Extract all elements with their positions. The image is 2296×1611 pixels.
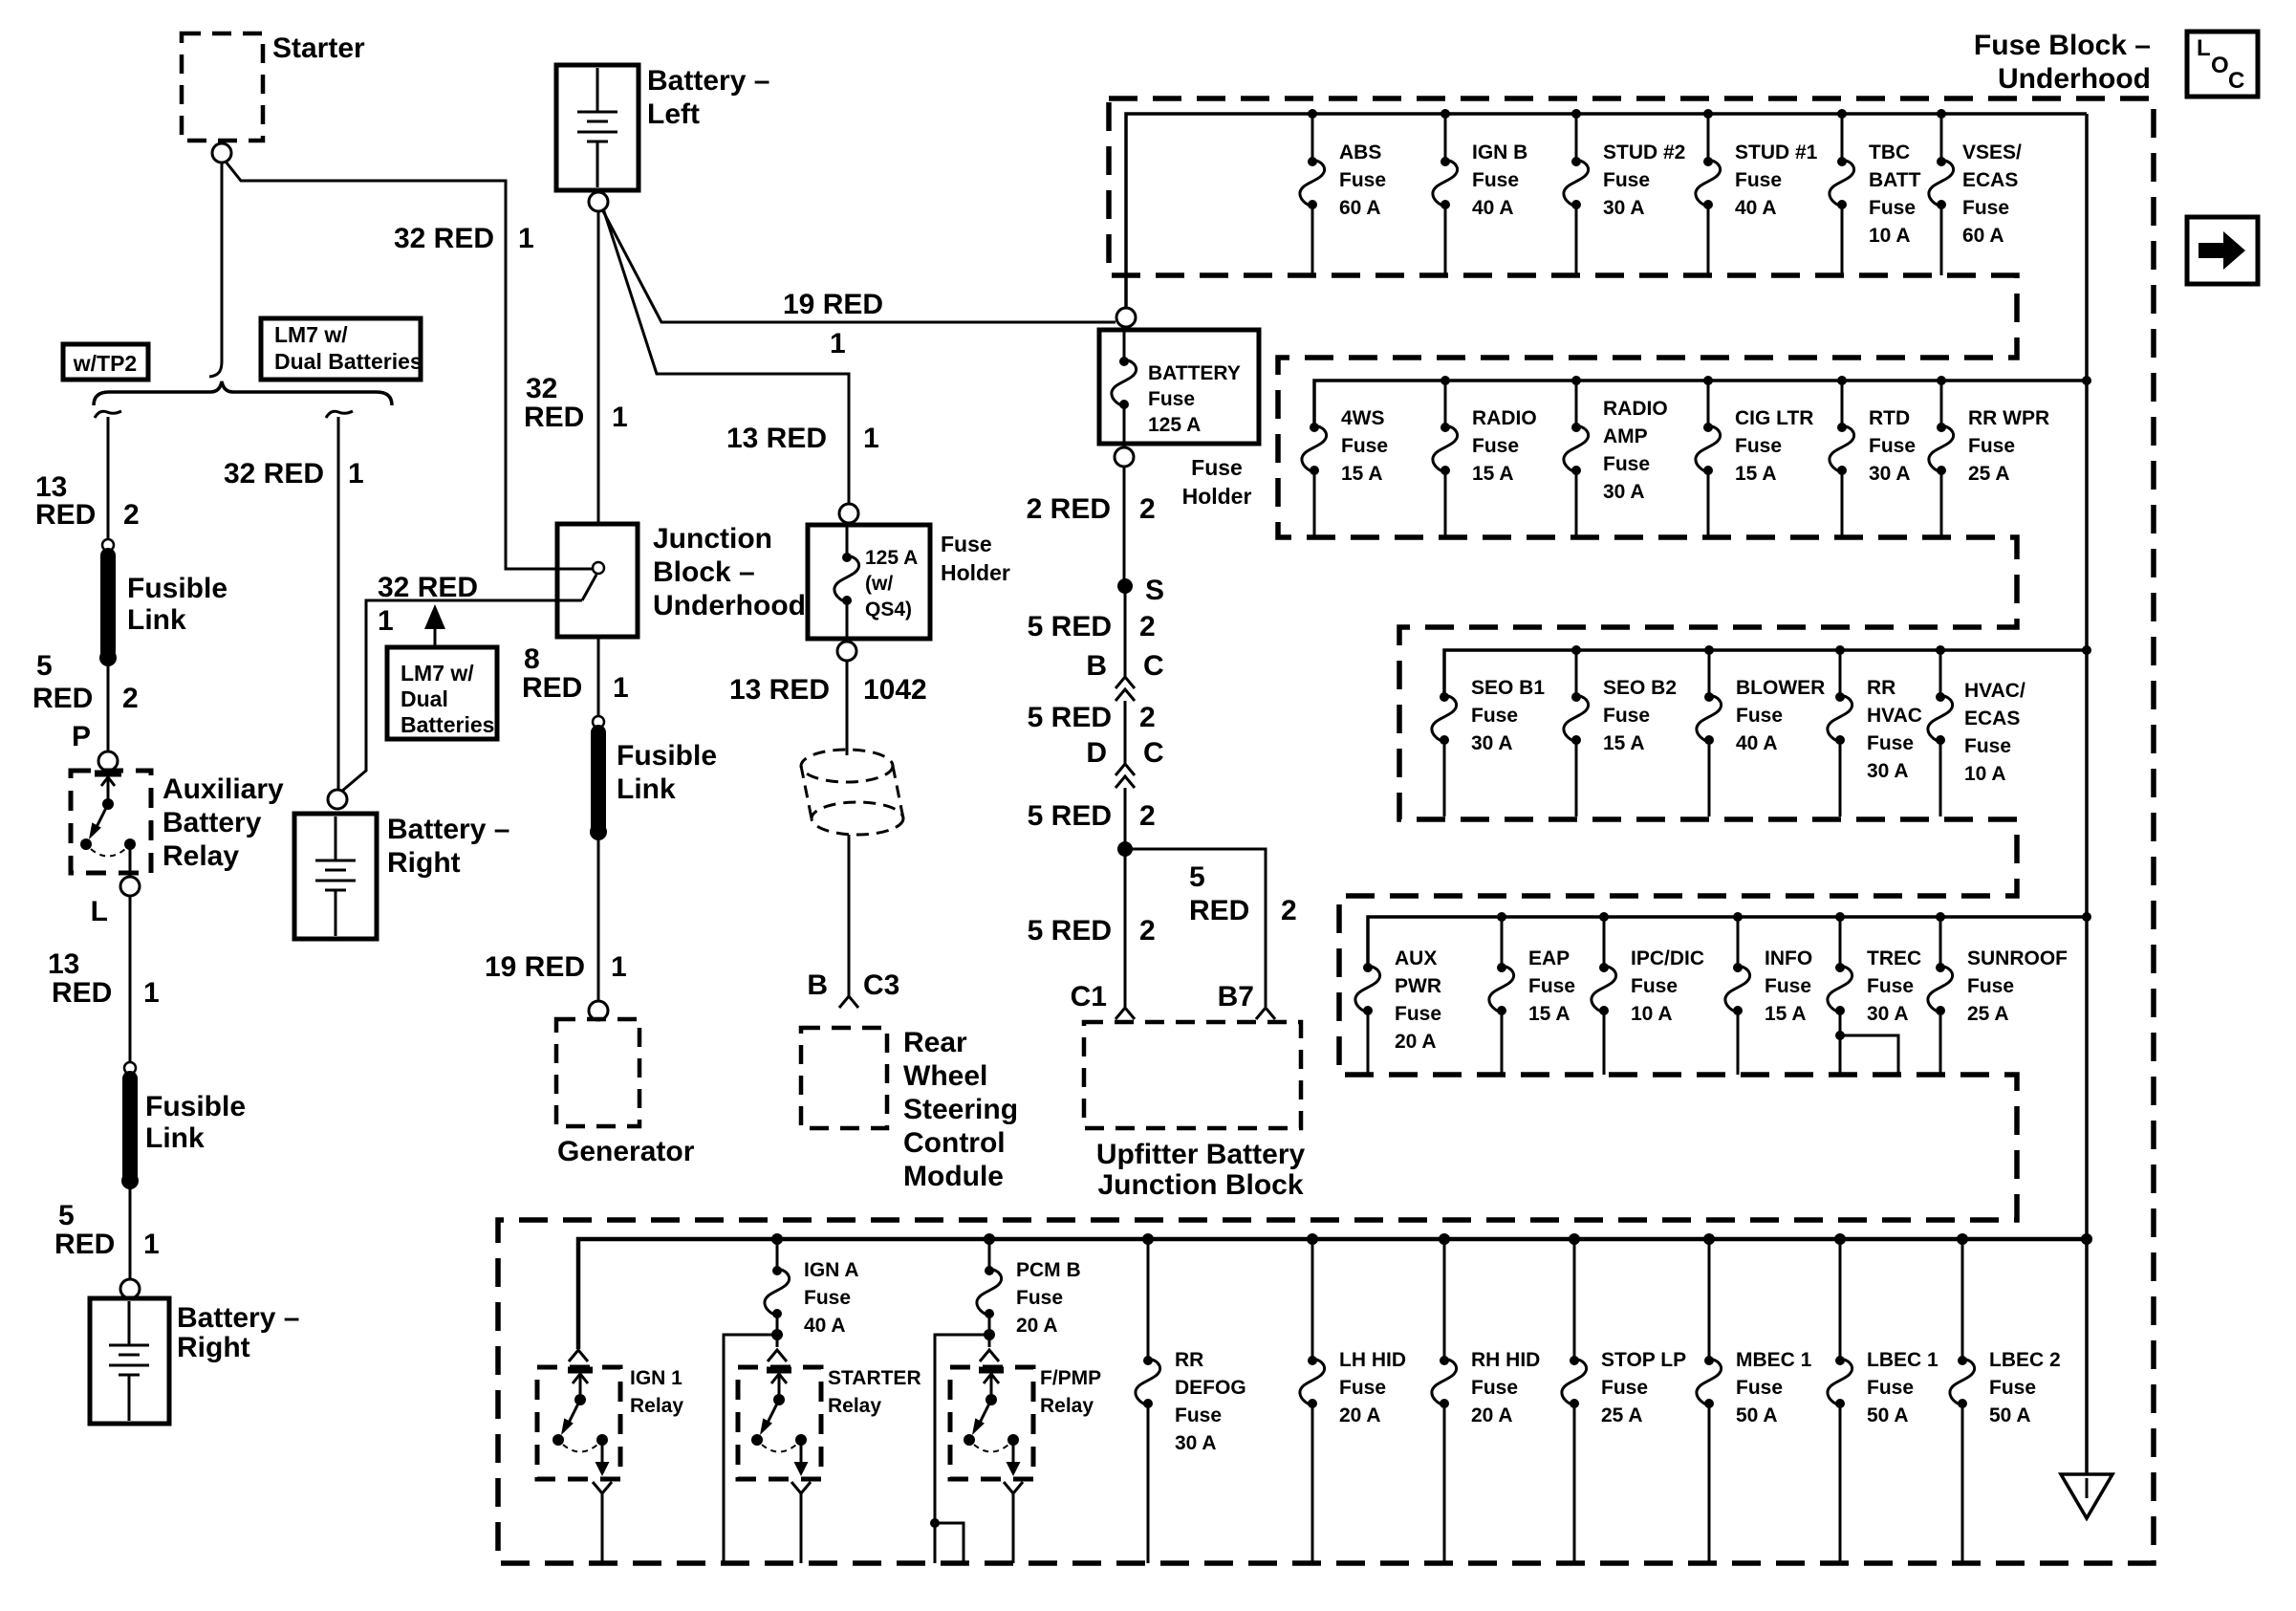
connector ring at battery fuse holder input xyxy=(1116,308,1136,327)
svg-text:HVAC: HVAC xyxy=(1867,705,1922,727)
svg-text:MBEC 1: MBEC 1 xyxy=(1736,1349,1812,1371)
svg-text:Fuse: Fuse xyxy=(1339,169,1386,191)
junction dots row 4 bus xyxy=(1497,912,2091,922)
in-line connector D/C double chevron xyxy=(1086,737,1163,788)
svg-text:1: 1 xyxy=(612,402,628,433)
svg-text:5 RED: 5 RED xyxy=(1028,702,1112,733)
svg-text:Fuse: Fuse xyxy=(1471,705,1518,727)
generator dashed box xyxy=(556,1019,639,1126)
row 2 bus wire xyxy=(1314,381,2087,425)
fuse LH HID 20A with wires xyxy=(1300,1239,1406,1563)
svg-text:1042: 1042 xyxy=(863,674,927,706)
relay IGN 1 xyxy=(537,1367,683,1479)
STARTER relay bypass wire xyxy=(724,1335,777,1563)
aux relay pivot dot xyxy=(102,798,114,810)
connector chevron above F/PMP relay xyxy=(980,1350,999,1361)
variant branch squiggle right xyxy=(326,411,353,418)
connector chevron above IGN 1 relay xyxy=(569,1350,588,1361)
row 3 bus wire xyxy=(1444,650,2087,695)
svg-text:32: 32 xyxy=(526,373,557,404)
svg-text:Fuse: Fuse xyxy=(1867,732,1914,754)
svg-text:Fuse: Fuse xyxy=(1765,975,1811,997)
svg-text:1: 1 xyxy=(143,977,160,1009)
svg-text:IPC/DIC: IPC/DIC xyxy=(1631,947,1704,969)
splice S junction dot xyxy=(1117,578,1133,594)
svg-text:Fuse: Fuse xyxy=(1191,455,1243,480)
variant branch squiggle left xyxy=(95,411,121,418)
svg-text:Fuse: Fuse xyxy=(1471,1377,1518,1399)
LOC reference box xyxy=(2187,32,2258,97)
wire from drum to rws module xyxy=(848,835,851,995)
svg-text:30 A: 30 A xyxy=(1471,732,1513,754)
svg-text:15 A: 15 A xyxy=(1735,463,1777,485)
aux relay contact dots xyxy=(80,838,92,850)
wire starter to variant brace xyxy=(209,163,222,377)
svg-text:125 A: 125 A xyxy=(865,547,918,569)
svg-text:SEO B2: SEO B2 xyxy=(1603,677,1677,699)
shield drum (conduit) dashed cylinder xyxy=(801,750,903,835)
svg-text:25 A: 25 A xyxy=(1968,463,2010,485)
wire 13 RED battery left to rws fuse holder xyxy=(603,208,849,504)
svg-text:15 A: 15 A xyxy=(1603,732,1645,754)
svg-text:Underhood: Underhood xyxy=(653,590,806,621)
svg-text:15 A: 15 A xyxy=(1528,1003,1570,1025)
svg-text:Dual Batteries: Dual Batteries xyxy=(274,349,422,374)
fuse MBEC 1 50A with wires xyxy=(1697,1239,1812,1563)
bottom box bus wire xyxy=(578,1239,2087,1349)
svg-text:20 A: 20 A xyxy=(1339,1404,1381,1426)
fuse RR DEFOG 30A with wires xyxy=(1136,1239,1246,1563)
aux relay moving arm with arrow xyxy=(89,804,108,839)
svg-text:5: 5 xyxy=(1189,861,1205,893)
fuse IGN A 40A xyxy=(765,1239,859,1337)
svg-text:5: 5 xyxy=(36,650,53,682)
TREC output jog wire xyxy=(1835,1031,1898,1075)
svg-text:RED: RED xyxy=(522,672,582,704)
svg-text:INFO: INFO xyxy=(1765,947,1812,969)
connector chevron above STARTER relay xyxy=(768,1350,787,1361)
svg-text:1: 1 xyxy=(830,328,846,359)
svg-text:1: 1 xyxy=(518,223,534,254)
svg-text:Battery –: Battery – xyxy=(177,1302,299,1334)
svg-text:2: 2 xyxy=(1139,800,1156,832)
svg-text:8: 8 xyxy=(524,643,540,675)
battery left cell symbol xyxy=(577,68,617,187)
svg-text:Steering: Steering xyxy=(903,1094,1018,1125)
svg-text:STUD #1: STUD #1 xyxy=(1735,142,1818,163)
svg-text:Fuse: Fuse xyxy=(1736,1377,1783,1399)
wire 5 RED connector D/C to splice xyxy=(1124,788,1127,849)
svg-text:Wheel: Wheel xyxy=(903,1060,987,1092)
battery right (mid) cell symbol xyxy=(315,816,356,936)
svg-text:Fuse: Fuse xyxy=(1175,1404,1222,1426)
connector ring at rws fuse holder input xyxy=(839,504,858,523)
right vertical feed bus wire xyxy=(2085,114,2089,1239)
svg-text:1: 1 xyxy=(378,605,394,637)
svg-text:LBEC 2: LBEC 2 xyxy=(1989,1349,2061,1371)
LM7 w/ dual batteries callout box (left) xyxy=(261,318,422,380)
svg-text:5: 5 xyxy=(58,1200,75,1231)
svg-text:Holder: Holder xyxy=(1182,484,1252,509)
fuse HVAC/ECAS 10A with wires xyxy=(1928,650,2025,816)
wire 19 RED from battery left to fuse holder xyxy=(602,209,1116,322)
svg-text:AUX: AUX xyxy=(1395,947,1437,969)
svg-text:Auxiliary: Auxiliary xyxy=(162,773,284,805)
starter dashed box xyxy=(182,33,263,141)
svg-text:C3: C3 xyxy=(863,969,899,1001)
svg-text:2: 2 xyxy=(1139,493,1156,525)
F/PMP relay output wire xyxy=(1012,1493,1015,1563)
wire 8 RED junction block to fusible link xyxy=(597,637,600,717)
svg-text:Fuse: Fuse xyxy=(1867,975,1914,997)
w/TP2 callout box xyxy=(63,344,148,380)
connector chevron below IGN 1 relay xyxy=(593,1482,612,1493)
aux relay throw dashed arc xyxy=(91,849,125,857)
connector ring at battery right (mid) xyxy=(328,790,347,809)
svg-text:30 A: 30 A xyxy=(1867,760,1909,782)
fuse SEO B1 30A with wires xyxy=(1432,677,1545,816)
svg-text:O: O xyxy=(2211,53,2229,78)
junction block - underhood box xyxy=(557,524,638,637)
svg-text:20 A: 20 A xyxy=(1016,1315,1058,1337)
svg-text:Fuse: Fuse xyxy=(1395,1003,1441,1025)
svg-text:LM7 w/: LM7 w/ xyxy=(401,661,474,686)
fuse LBEC 1 50A with wires xyxy=(1828,1239,1939,1563)
junction dots row 3 bus xyxy=(1571,645,2091,655)
svg-text:Relay: Relay xyxy=(828,1395,881,1417)
svg-text:60 A: 60 A xyxy=(1962,225,2004,247)
relay F/PMP xyxy=(950,1367,1101,1479)
svg-text:20 A: 20 A xyxy=(1471,1404,1513,1426)
svg-text:Relay: Relay xyxy=(1040,1395,1094,1417)
svg-text:Battery: Battery xyxy=(162,807,262,838)
svg-text:1: 1 xyxy=(863,423,879,454)
svg-text:10 A: 10 A xyxy=(1631,1003,1673,1025)
fusible link (left chain upper) xyxy=(99,555,227,666)
svg-text:D: D xyxy=(1086,737,1107,769)
svg-text:2: 2 xyxy=(123,499,140,531)
svg-text:C: C xyxy=(1143,737,1164,769)
wire 13 RED circuit 1042 to rws module xyxy=(846,661,849,755)
fuse LBEC 2 50A with wires xyxy=(1950,1239,2061,1563)
svg-text:1: 1 xyxy=(611,951,627,983)
fuse TREC 30A with wires xyxy=(1828,917,1921,1075)
svg-text:Right: Right xyxy=(387,847,461,879)
svg-text:Fuse: Fuse xyxy=(1603,169,1650,191)
svg-text:Fuse: Fuse xyxy=(1016,1287,1063,1309)
svg-text:F/PMP: F/PMP xyxy=(1040,1367,1101,1389)
svg-text:(w/: (w/ xyxy=(865,573,893,595)
connector ring at battery fuse holder output xyxy=(1115,447,1134,467)
svg-text:Junction Block: Junction Block xyxy=(1097,1169,1303,1201)
fuse RH HID 20A with wires xyxy=(1432,1239,1540,1563)
svg-text:STUD #2: STUD #2 xyxy=(1603,142,1685,163)
connector chevron below F/PMP relay xyxy=(1004,1482,1023,1493)
svg-text:40 A: 40 A xyxy=(1735,197,1777,219)
connector ring at aux relay pin P xyxy=(98,751,118,771)
svg-text:ECAS: ECAS xyxy=(1962,169,2018,191)
svg-text:30 A: 30 A xyxy=(1603,197,1645,219)
svg-text:4WS: 4WS xyxy=(1341,407,1385,429)
svg-text:Fuse: Fuse xyxy=(804,1287,851,1309)
svg-text:25 A: 25 A xyxy=(1601,1404,1643,1426)
fuse RTD 30A with wires xyxy=(1830,381,1916,537)
fuse BATTERY 125A xyxy=(1112,327,1241,447)
svg-text:Fuse Block –: Fuse Block – xyxy=(1974,30,2151,61)
svg-text:B: B xyxy=(807,969,828,1001)
svg-text:RR: RR xyxy=(1867,677,1895,699)
svg-text:DEFOG: DEFOG xyxy=(1175,1377,1246,1399)
wire 5 RED connector B/C to connector D/C xyxy=(1124,701,1127,764)
svg-text:Fuse: Fuse xyxy=(1869,197,1916,219)
svg-text:Fuse: Fuse xyxy=(1341,435,1388,457)
svg-text:Rear: Rear xyxy=(903,1027,967,1058)
fusible link ring (left chain lower) xyxy=(124,1062,136,1074)
svg-text:EAP: EAP xyxy=(1528,947,1570,969)
IGN 1 relay output wire xyxy=(601,1493,604,1563)
svg-text:Underhood: Underhood xyxy=(1998,63,2151,95)
svg-text:Fuse: Fuse xyxy=(1601,1377,1648,1399)
svg-text:Fusible: Fusible xyxy=(127,573,227,604)
fuse EAP 15A with wires xyxy=(1489,917,1575,1075)
svg-text:ECAS: ECAS xyxy=(1964,708,2020,729)
svg-text:Batteries: Batteries xyxy=(401,712,494,737)
battery left box xyxy=(556,65,639,190)
PCM B fuse output wire and junction xyxy=(984,1314,995,1347)
wire 2 RED from fuse holder to splice S xyxy=(1123,467,1126,586)
svg-text:Right: Right xyxy=(177,1332,250,1363)
svg-text:20 A: 20 A xyxy=(1395,1031,1437,1053)
svg-text:TBC: TBC xyxy=(1869,142,1910,163)
svg-text:Generator: Generator xyxy=(557,1136,695,1167)
svg-text:40 A: 40 A xyxy=(804,1315,846,1337)
fusible link (generator feed) xyxy=(590,732,717,840)
svg-text:30 A: 30 A xyxy=(1603,481,1645,503)
svg-text:Fuse: Fuse xyxy=(941,532,992,556)
battery right (lower) box xyxy=(90,1298,169,1424)
fuse holder (125 A w/QS4) box xyxy=(808,525,930,639)
svg-text:Junction: Junction xyxy=(653,523,772,555)
svg-text:Fuse: Fuse xyxy=(1967,975,2014,997)
svg-text:30 A: 30 A xyxy=(1867,1003,1909,1025)
svg-text:RED: RED xyxy=(32,683,93,714)
svg-text:RADIO: RADIO xyxy=(1472,407,1537,429)
svg-text:32 RED: 32 RED xyxy=(224,458,324,490)
fuse STUD #1 40A with wires xyxy=(1696,114,1818,275)
auxiliary battery relay dashed box xyxy=(71,771,151,873)
svg-text:Battery –: Battery – xyxy=(387,814,509,845)
svg-text:RR: RR xyxy=(1175,1349,1203,1371)
svg-text:Fuse: Fuse xyxy=(1603,453,1650,475)
svg-text:Fuse: Fuse xyxy=(1968,435,2015,457)
svg-text:Fuse: Fuse xyxy=(1472,435,1519,457)
svg-text:BATTERY: BATTERY xyxy=(1148,362,1241,384)
junction dots row 2 bus xyxy=(1440,376,2091,385)
svg-text:5 RED: 5 RED xyxy=(1028,800,1112,832)
svg-text:C: C xyxy=(1143,650,1164,682)
svg-text:13 RED: 13 RED xyxy=(726,423,827,454)
svg-text:Fuse: Fuse xyxy=(1989,1377,2036,1399)
connector ring at rws fuse holder output xyxy=(837,642,856,661)
wire 5 RED splice S to connector B/C xyxy=(1124,586,1127,677)
fusible link (left chain lower) xyxy=(121,1078,246,1189)
fuse IPC/DIC 10A with wires xyxy=(1592,917,1704,1075)
fuse BLOWER 40A with wires xyxy=(1697,650,1825,816)
svg-text:Fuse: Fuse xyxy=(1631,975,1678,997)
svg-text:Dual: Dual xyxy=(401,686,448,711)
svg-text:RED: RED xyxy=(1189,895,1249,926)
svg-text:5 RED: 5 RED xyxy=(1028,915,1112,947)
fuse STUD #2 30A with wires xyxy=(1564,114,1685,275)
svg-text:Control: Control xyxy=(903,1127,1006,1159)
junction block internal tap stinger xyxy=(582,575,596,600)
svg-text:Fusible: Fusible xyxy=(145,1091,246,1122)
ground reference triangle G xyxy=(2061,1239,2112,1518)
svg-text:STOP LP: STOP LP xyxy=(1601,1349,1686,1371)
fuse block - underhood dashed outline xyxy=(498,98,2154,1563)
svg-text:B7: B7 xyxy=(1218,981,1254,1012)
upfitter battery junction block dashed box xyxy=(1084,1022,1301,1128)
svg-text:Fuse: Fuse xyxy=(1528,975,1575,997)
svg-text:Block –: Block – xyxy=(653,556,755,588)
variant selection brace xyxy=(94,381,392,405)
fusible link ring (left chain upper) xyxy=(102,539,114,551)
fuse 125 A (w/ QS4) xyxy=(834,523,918,642)
svg-text:Fuse: Fuse xyxy=(1339,1377,1386,1399)
connector ring at battery right (lower) xyxy=(120,1279,140,1298)
svg-text:125 A: 125 A xyxy=(1148,414,1201,436)
svg-text:19 RED: 19 RED xyxy=(485,951,585,983)
svg-text:RTD: RTD xyxy=(1869,407,1910,429)
svg-text:QS4): QS4) xyxy=(865,599,912,620)
connector ring at generator xyxy=(589,1001,608,1020)
svg-text:LBEC 1: LBEC 1 xyxy=(1867,1349,1939,1371)
rear wheel steering control module dashed box xyxy=(801,1028,887,1128)
svg-text:5 RED: 5 RED xyxy=(1028,611,1112,642)
junction dots bottom bus xyxy=(771,1233,2092,1245)
svg-text:Fuse: Fuse xyxy=(1962,197,2009,219)
svg-text:32 RED: 32 RED xyxy=(378,572,478,603)
battery right (lower) cell symbol xyxy=(109,1301,149,1421)
svg-text:2: 2 xyxy=(122,683,139,714)
svg-text:2: 2 xyxy=(1139,611,1156,642)
LM7 callout arrow xyxy=(424,604,445,647)
svg-text:L: L xyxy=(2197,35,2211,61)
svg-text:S: S xyxy=(1145,575,1164,606)
svg-text:Relay: Relay xyxy=(162,840,239,872)
fuse RR HVAC 30A with wires xyxy=(1828,650,1922,816)
svg-text:RADIO: RADIO xyxy=(1603,398,1668,420)
fuse AUX PWR 20A with wires xyxy=(1355,947,1441,1075)
svg-text:Fuse: Fuse xyxy=(1735,435,1782,457)
svg-text:Link: Link xyxy=(127,604,186,636)
fuse SEO B2 15A with wires xyxy=(1564,650,1677,816)
aux relay armature arrow up xyxy=(101,777,115,802)
fuse INFO 15A with wires xyxy=(1725,917,1812,1075)
svg-text:50 A: 50 A xyxy=(1736,1404,1778,1426)
fuse RADIO AMP 30A with wires xyxy=(1564,381,1668,537)
svg-text:Fuse: Fuse xyxy=(1148,388,1195,410)
svg-text:SEO B1: SEO B1 xyxy=(1471,677,1545,699)
page-continuation arrow box xyxy=(2187,217,2258,284)
svg-text:C: C xyxy=(2228,68,2244,94)
svg-text:B: B xyxy=(1086,650,1107,682)
row 1 bus wire xyxy=(1126,114,2087,309)
fuse 4WS 15A with wires xyxy=(1302,407,1388,537)
connector ring below starter xyxy=(212,143,231,163)
svg-text:10 A: 10 A xyxy=(1964,763,2006,785)
splice junction dot above upfitter block xyxy=(1117,841,1133,857)
fuse ABS 60A with wires xyxy=(1300,114,1386,275)
svg-text:50 A: 50 A xyxy=(1867,1404,1909,1426)
aux relay output stub xyxy=(129,844,132,877)
fuse CIG LTR 15A with wires xyxy=(1696,381,1814,537)
svg-text:19 RED: 19 RED xyxy=(783,289,883,320)
connector ring at aux relay pin L xyxy=(120,877,140,896)
junction dots row 1 bus xyxy=(1308,109,1946,119)
svg-text:30 A: 30 A xyxy=(1175,1432,1217,1454)
svg-text:ABS: ABS xyxy=(1339,142,1381,163)
fusible link ring (generator feed) xyxy=(593,716,604,728)
svg-text:15 A: 15 A xyxy=(1765,1003,1807,1025)
svg-text:STARTER: STARTER xyxy=(828,1367,921,1389)
svg-text:PWR: PWR xyxy=(1395,975,1441,997)
junction block internal tap ring xyxy=(593,562,604,574)
F/PMP relay bypass wire with jog xyxy=(930,1335,989,1563)
svg-text:Fuse: Fuse xyxy=(1472,169,1519,191)
svg-text:LH HID: LH HID xyxy=(1339,1349,1406,1371)
svg-text:LM7 w/: LM7 w/ xyxy=(274,322,348,347)
wire 32 RED starter to junction block xyxy=(226,162,593,569)
svg-text:15 A: 15 A xyxy=(1341,463,1383,485)
STARTER relay output wire xyxy=(800,1493,803,1563)
wire 5 RED to upfitter C1 xyxy=(1124,849,1127,1007)
connector chevron at rws module pin C3 xyxy=(839,996,858,1008)
row 4 bus wire xyxy=(1368,917,2087,966)
svg-text:AMP: AMP xyxy=(1603,425,1648,447)
wire 5 RED link to aux relay P xyxy=(107,659,110,751)
svg-text:1: 1 xyxy=(613,672,629,704)
svg-text:Fuse: Fuse xyxy=(1735,169,1782,191)
svg-text:1: 1 xyxy=(143,1229,160,1260)
svg-text:10 A: 10 A xyxy=(1869,225,1911,247)
fuse PCM B 20A xyxy=(977,1239,1081,1337)
IGN A fuse output wire and junction xyxy=(771,1314,783,1347)
svg-text:IGN 1: IGN 1 xyxy=(630,1367,682,1389)
svg-text:32 RED: 32 RED xyxy=(394,223,494,254)
svg-text:Link: Link xyxy=(145,1122,205,1154)
svg-text:2: 2 xyxy=(1139,915,1156,947)
svg-text:IGN A: IGN A xyxy=(804,1259,859,1281)
svg-text:Link: Link xyxy=(617,773,676,805)
svg-text:HVAC/: HVAC/ xyxy=(1964,680,2025,702)
svg-text:13: 13 xyxy=(48,948,79,980)
svg-text:C1: C1 xyxy=(1071,981,1107,1012)
fuse IGN B 40A with wires xyxy=(1433,114,1527,275)
svg-text:VSES/: VSES/ xyxy=(1962,142,2022,163)
svg-text:IGN B: IGN B xyxy=(1472,142,1527,163)
wire 19 RED fusible link to generator xyxy=(597,833,600,1001)
connector chevron at B7 xyxy=(1256,1008,1275,1019)
svg-text:Fuse: Fuse xyxy=(1869,435,1916,457)
connector chevron below STARTER relay xyxy=(791,1482,811,1493)
svg-text:BLOWER: BLOWER xyxy=(1736,677,1825,699)
svg-text:60 A: 60 A xyxy=(1339,197,1381,219)
connector chevron at C1 xyxy=(1116,1008,1135,1019)
svg-text:CIG LTR: CIG LTR xyxy=(1735,407,1813,429)
svg-text:Fuse: Fuse xyxy=(1736,705,1783,727)
wire variant left branch down xyxy=(107,417,110,540)
